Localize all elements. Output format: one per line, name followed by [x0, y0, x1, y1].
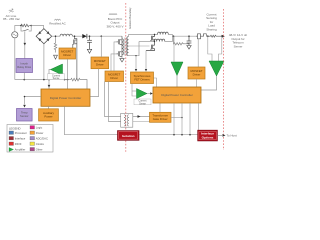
- svg-text:Relay Drive: Relay Drive: [17, 65, 31, 69]
- isolation boundary dashed line: [125, 3, 127, 152]
- wire AC hot up: [15, 26, 21, 32]
- node Q4 drain: [154, 34, 155, 35]
- shunt resistor zigzag: [207, 34, 222, 37]
- node Q5 drain: [154, 41, 155, 42]
- node on return bus: [24, 79, 26, 81]
- relay bypass switch: [21, 26, 23, 32]
- primary return bus: [15, 79, 71, 81]
- svg-text:Driver: Driver: [110, 76, 118, 80]
- wires DPC2 down: [173, 103, 175, 135]
- wire isolator to gate driver b: [133, 121, 150, 123]
- transformer T1 secondary: [127, 37, 129, 56]
- svg-text:Logic: Logic: [36, 126, 43, 130]
- svg-text:Other: Other: [36, 148, 43, 152]
- svg-text:Power: Power: [44, 114, 52, 118]
- synchronous FET drivers box: [131, 72, 154, 84]
- node A1 bus: [48, 79, 50, 81]
- arrow down on relay wire: [24, 43, 27, 46]
- resistor R-shunt primary: [71, 78, 87, 89]
- sync FET Q5: [146, 42, 155, 51]
- transformer winding left: [124, 115, 125, 126]
- wire relay box down: [23, 73, 25, 80]
- bridge diode glyphs: [38, 31, 49, 41]
- wire cs inputs: [132, 84, 137, 97]
- svg-text:Sensor: Sensor: [20, 114, 29, 118]
- AC source V1: [12, 32, 18, 38]
- MOSFET driver box3: [188, 67, 205, 79]
- svg-text:Isolation: Isolation: [122, 134, 135, 138]
- svg-text:85 - 265 Vac: 85 - 265 Vac: [3, 17, 20, 21]
- half-bridge FET Q3: [117, 45, 123, 57]
- node shunt a: [207, 35, 209, 37]
- wire box1 up to rail: [100, 36, 102, 57]
- node bottom tap: [135, 55, 136, 56]
- transformer T1 primary: [121, 47, 123, 49]
- output cap C2: [187, 36, 192, 45]
- wire T2 out: [201, 76, 217, 90]
- boost MOSFET Q1: [73, 36, 77, 79]
- wire into T1: [173, 36, 175, 62]
- svg-text:380 V, 400 V: 380 V, 400 V: [106, 24, 123, 28]
- wire ORing gate down to box3: [197, 39, 199, 67]
- svg-text:Interface: Interface: [15, 137, 26, 141]
- svg-text:LEGEND: LEGEND: [9, 126, 21, 130]
- svg-text:Gate Driver: Gate Driver: [153, 117, 168, 121]
- node drv1 tap: [101, 35, 103, 37]
- temp sensor box: [17, 109, 33, 122]
- current sense label 2: [134, 99, 151, 105]
- rectified AC waveform icon: [55, 19, 61, 21]
- node cs tap: [64, 79, 66, 81]
- output rail: [172, 35, 197, 37]
- arrow divider sense (open): [54, 55, 58, 59]
- interface options box: [198, 130, 218, 141]
- wire bridge bottom down: [43, 44, 45, 80]
- main rail after bridge: [52, 35, 60, 37]
- ground under C1: [87, 49, 91, 53]
- node cap tap: [89, 35, 91, 37]
- primary digital power controller: [41, 89, 90, 106]
- wire rail: [72, 35, 82, 37]
- wire box2 to isolation transformer a: [105, 82, 121, 117]
- secondary digital power controller: [153, 87, 201, 103]
- wire A1 tip down to DPC: [49, 70, 51, 90]
- sync FET Q4: [150, 35, 154, 42]
- sync FET driver wires: [135, 56, 137, 71]
- svg-text:Driver: Driver: [96, 62, 104, 66]
- node J1: [20, 25, 22, 27]
- transformer core: [124, 38, 126, 56]
- node J2: [30, 25, 32, 27]
- svg-text:Sense: Sense: [139, 102, 146, 105]
- bridge rectifier BR1: [36, 29, 52, 44]
- relay driver box: [16, 59, 33, 73]
- node shunt b: [221, 35, 223, 37]
- wire L2b to rail: [165, 36, 173, 41]
- divider resistor R2 vertical: [54, 36, 57, 52]
- arrow into sync driver 1: [135, 69, 137, 72]
- boost inductor L1: [60, 34, 72, 36]
- gate-drive isolation transformer box: [121, 113, 133, 127]
- AC line input icon: [9, 10, 14, 12]
- svg-text:Server: Server: [234, 44, 243, 48]
- MOSFET driver box1: [91, 57, 109, 69]
- node driver cross: [67, 79, 69, 81]
- MOSFET driver box0: [59, 48, 76, 59]
- current sense amp A1 (points left): [51, 64, 63, 75]
- half-bridge FET Q2: [117, 36, 123, 44]
- node bridge return: [43, 79, 45, 81]
- ground under C2: [187, 46, 191, 50]
- wire T1 out to DPC: [176, 76, 178, 88]
- boost cap C1: [87, 36, 92, 49]
- svg-text:ADC/DAC: ADC/DAC: [36, 137, 48, 141]
- svg-text:FET Drivers: FET Drivers: [134, 77, 150, 81]
- MOSFET driver box2: [105, 71, 124, 82]
- svg-text:To Host: To Host: [227, 134, 237, 138]
- svg-text:Driver: Driver: [63, 53, 71, 57]
- wire secondary bottom tap: [129, 42, 139, 56]
- ORing FET element: [196, 34, 201, 39]
- auxiliary power box: [39, 109, 59, 121]
- output arrow: [222, 35, 225, 38]
- svg-text:Inrush: Inrush: [20, 62, 28, 66]
- sense resistor R3: [174, 36, 190, 45]
- wire TGD right: [171, 117, 182, 119]
- wire box3 down: [196, 79, 198, 87]
- amp T2 current sense (down): [209, 61, 224, 76]
- wire rail to half bridge: [87, 35, 122, 37]
- wire L2a to rail: [168, 35, 172, 37]
- node out1: [173, 35, 175, 37]
- shunt sense wires: [208, 36, 212, 61]
- svg-text:Digital Power Controller: Digital Power Controller: [161, 93, 193, 97]
- wire B lower leg: [139, 41, 154, 43]
- wire gates from box2: [111, 54, 117, 71]
- svg-text:Temp: Temp: [21, 110, 28, 114]
- amp T1 output sense (down): [171, 62, 183, 76]
- svg-text:Amplifier: Amplifier: [15, 148, 26, 152]
- right dashed line: [223, 9, 225, 150]
- legend amplifier triangle: [9, 148, 14, 152]
- svg-text:Options: Options: [202, 135, 214, 139]
- wire secondary center tap: [129, 45, 150, 47]
- legend box: [7, 125, 53, 153]
- output inductor L2a: [158, 32, 169, 34]
- arrow into DPC: [48, 85, 51, 88]
- wire gate driver up: [159, 103, 161, 112]
- svg-text:Digital Power Controller: Digital Power Controller: [50, 96, 82, 100]
- svg-text:Sharing: Sharing: [206, 27, 217, 31]
- output inductor L2b: [154, 39, 165, 41]
- svg-text:Sense: Sense: [53, 77, 60, 80]
- legend swatches right: [30, 126, 35, 151]
- svg-text:Isolation Boundary: Isolation Boundary: [128, 7, 132, 29]
- wire DPC down to bottom bus: [65, 106, 198, 134]
- legend labels: [15, 126, 48, 152]
- wire DPC to aux power: [48, 106, 50, 109]
- ground under Q3: [120, 59, 124, 62]
- svg-text:Power: Power: [36, 131, 44, 135]
- current sense label box: [48, 74, 65, 80]
- wire to host: [217, 134, 222, 136]
- svg-text:RF/IF: RF/IF: [15, 142, 22, 146]
- transformer gate driver box: [150, 112, 172, 122]
- node out2: [188, 35, 190, 37]
- legend swatches left: [9, 131, 14, 145]
- isolation box: [118, 131, 140, 141]
- wire secondary top tap: [129, 35, 158, 37]
- wire box1 down to DPC: [90, 69, 98, 97]
- transformer winding right: [127, 115, 128, 126]
- boost diode D1: [82, 34, 86, 38]
- wire box2 to isolation transformer b: [109, 82, 121, 122]
- wire box0 down to DPC: [67, 59, 69, 89]
- svg-text:Clocks: Clocks: [36, 142, 45, 146]
- wire cs out arrow: [147, 93, 150, 95]
- wire isolator to gate driver a: [133, 116, 150, 118]
- boost output waveform icon: [109, 14, 117, 16]
- arrow into sync driver 2: [145, 69, 147, 72]
- wire DPC to temp sensor: [25, 97, 42, 105]
- wire to bridge top: [31, 26, 43, 29]
- svg-text:Driver: Driver: [193, 73, 201, 77]
- wire relay coil drive: [24, 31, 26, 60]
- wire AC neutral down: [14, 38, 16, 80]
- node bus joins: [173, 134, 175, 136]
- svg-text:Processor: Processor: [15, 131, 27, 135]
- node R2: [55, 35, 57, 37]
- svg-text:Rectified AC: Rectified AC: [49, 22, 66, 26]
- node boost fet: [74, 35, 76, 37]
- wire sync box to DPC2: [154, 78, 157, 87]
- secondary current sense amp (right): [137, 89, 148, 99]
- resistor R-inrush: [21, 24, 31, 27]
